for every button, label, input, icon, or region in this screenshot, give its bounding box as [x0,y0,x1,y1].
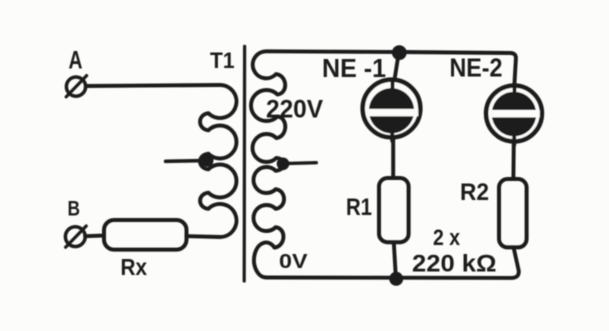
primary center tap wire [166,159,205,163]
svg-text:2 x: 2 x [433,225,461,250]
lead through NE-1 [393,53,399,177]
secondary tap junction dot [277,158,290,171]
secondary winding + top wire + bottom 0V wire [251,51,519,278]
terminal A [66,76,86,97]
svg-text:0V: 0V [279,251,308,273]
secondary center tap wire [284,161,316,165]
lead through NE-2 [513,84,514,178]
svg-text:NE -1: NE -1 [322,55,386,83]
terminal B [65,226,86,247]
wire from A into primary winding of T1 [86,85,236,237]
svg-text:220 kΩ: 220 kΩ [412,251,497,278]
svg-text:T1: T1 [210,48,235,73]
wire B to Rx [85,234,103,238]
resistor R2 [499,179,527,247]
resistor R1 [379,178,409,242]
top node junction dot [392,45,407,60]
top wire from node to NE-2 branch [399,52,516,95]
svg-text:220V: 220V [266,96,323,124]
svg-text:A: A [69,46,83,74]
svg-text:NE-2: NE-2 [450,55,503,83]
resistor Rx [104,220,187,250]
wire R1 to bottom node [394,244,396,278]
svg-text:Rx: Rx [121,254,148,280]
lamp NE-1 [363,80,421,141]
transformer core [243,46,247,281]
bottom node junction dot [389,272,403,286]
svg-text:R1: R1 [346,194,372,221]
svg-text:B: B [68,198,81,221]
primary tap junction dot [201,154,213,166]
lamp NE-2 [486,86,542,146]
svg-text:R2: R2 [460,179,489,206]
